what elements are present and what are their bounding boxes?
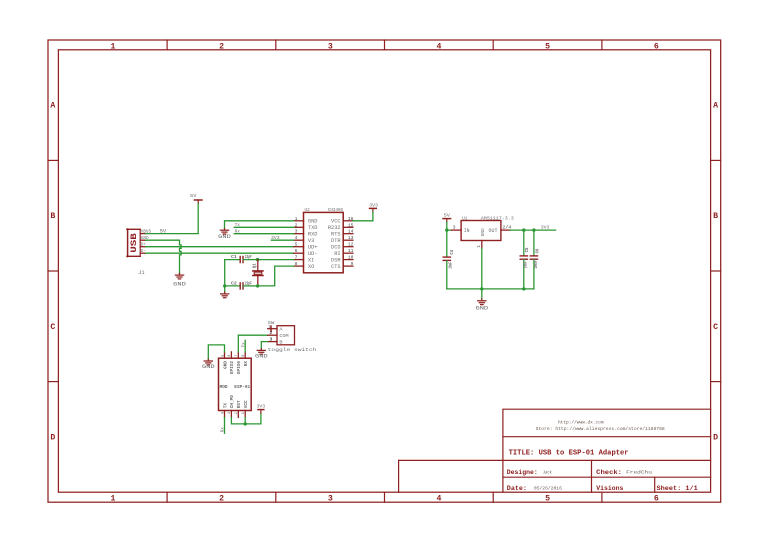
svg-text:http://www.dx.com: http://www.dx.com [558,419,604,425]
junction rail at regulator GND [480,287,483,290]
svg-text:GPIO0: GPIO0 [237,361,242,375]
ground GND (switch) [255,349,268,360]
wire D- [146,252,294,254]
svg-text:GND: GND [173,282,186,288]
svg-text:4: 4 [436,42,441,51]
svg-text:Date:: Date: [507,485,527,492]
wire crystal left leg [224,260,226,286]
svg-text:GPIO2: GPIO2 [230,361,235,375]
svg-text:D: D [50,434,55,443]
svg-text:7: 7 [234,355,238,357]
svg-text:TITLE: USB to ESP-01 Adapter: TITLE: USB to ESP-01 Adapter [509,450,629,458]
wire CH_PD/VCC to 3V3 [231,413,261,424]
svg-text:USB: USB [129,233,139,253]
svg-text:C5: C5 [525,247,530,252]
wire switch B to ground [261,342,267,349]
capacitor C2 22pF [225,281,258,289]
svg-text:5: 5 [545,42,550,51]
svg-text:B: B [713,212,718,221]
svg-text:3V3: 3V3 [541,225,550,231]
net label Rx (ESP TX) [221,427,226,432]
net label 5V [160,228,167,234]
svg-text:12: 12 [348,242,354,248]
svg-text:C: C [50,323,55,332]
module MOD1 ESP-01 [219,352,252,418]
net label 3V3 (output) [541,225,550,231]
svg-text:7: 7 [295,255,298,261]
svg-text:U1: U1 [462,216,467,222]
svg-text:2: 2 [295,222,298,228]
svg-text:Sheet: 1/1: Sheet: 1/1 [657,485,698,492]
svg-text:Rx: Rx [235,229,241,235]
svg-text:GND: GND [308,219,318,225]
svg-text:10uF: 10uF [448,262,453,269]
svg-text:10uF: 10uF [523,261,528,268]
svg-text:RTS: RTS [331,231,341,237]
svg-text:1: 1 [110,42,115,51]
junction C6 top [532,228,535,231]
junction C5 top [522,228,525,231]
ground GND (ESP) [202,359,215,370]
junction XO node [256,284,259,287]
svg-text:8: 8 [295,261,298,267]
svg-text:5V: 5V [160,228,167,234]
svg-text:VCC: VCC [244,400,249,408]
ground GND (crystal) [221,292,229,298]
svg-text:3V3: 3V3 [369,202,378,208]
junction rail at C5 [522,287,525,290]
junction regulator input [445,228,448,231]
label toggle switch [268,347,317,353]
wire XO [258,266,294,286]
svg-text:1: 1 [110,495,115,504]
svg-text:RST: RST [237,400,242,408]
svg-text:1: 1 [241,412,245,414]
svg-text:1: 1 [268,326,270,330]
svg-text:C1: C1 [231,255,237,260]
svg-text:Visions: Visions [596,485,623,492]
svg-text:GND: GND [476,305,489,311]
svg-text:J1: J1 [138,270,145,276]
switch SW toggle [268,320,295,345]
svg-text:6: 6 [227,355,231,357]
wire ESP TX stub [224,417,226,433]
svg-text:C2: C2 [231,281,237,286]
svg-text:4: 4 [436,495,441,504]
svg-text:Q1: Q1 [252,263,257,268]
svg-text:TX: TX [223,403,228,409]
svg-text:XO: XO [308,264,314,270]
svg-text:C: C [713,323,718,332]
svg-text:3: 3 [295,229,298,235]
supply 5V (regulator) [443,212,451,222]
wire IC pin1 GND [225,221,294,229]
svg-text:13: 13 [348,235,354,241]
svg-text:GND: GND [202,364,215,370]
svg-text:D: D [713,434,718,443]
capacitor C1 22pF [225,255,258,263]
supply 5V (USB) [190,193,202,204]
svg-text:B: B [279,339,282,345]
regulator U1 AMS1117-3.3 [452,216,515,249]
svg-text:3V3: 3V3 [257,403,266,409]
svg-text:15: 15 [348,222,354,228]
svg-text:Designe:: Designe: [507,469,538,476]
wire 5V to regulator IN [447,222,452,230]
svg-text:1: 1 [295,216,298,222]
svg-text:GND: GND [223,361,228,369]
svg-text:CH_PD: CH_PD [230,395,235,409]
svg-text:GND: GND [255,354,268,360]
svg-text:GND: GND [482,228,486,237]
svg-text:2: 2 [219,495,224,504]
svg-text:FredChu: FredChu [626,469,652,475]
svg-text:9: 9 [351,261,354,267]
svg-text:UD+: UD+ [308,244,318,250]
svg-text:5: 5 [545,495,550,504]
svg-text:6: 6 [654,495,659,504]
svg-text:3: 3 [328,42,333,51]
junction XI node [256,258,259,261]
svg-text:11: 11 [348,248,354,254]
svg-text:3: 3 [270,336,273,342]
svg-text:TXD: TXD [308,225,318,231]
svg-text:5: 5 [295,242,298,248]
svg-text:05/26/2016: 05/26/2016 [534,486,562,492]
svg-text:3: 3 [453,225,456,231]
svg-text:ESP-01: ESP-01 [234,385,250,390]
wire VCC [353,212,373,221]
supply at switch pin 1 [270,326,272,331]
wire to crystal ground [224,286,226,292]
svg-text:OUT: OUT [489,228,498,234]
svg-text:8: 8 [241,355,245,357]
wire rail to ground [481,289,483,299]
svg-text:C6: C6 [535,248,540,253]
wire ESP GND [208,345,224,359]
wire 3V3 output [510,229,555,231]
connector J1 USB [127,229,151,277]
wire ESP RX stub [244,340,246,352]
wire regulator GND [481,248,483,289]
wire RXD [234,233,293,235]
svg-text:IN: IN [464,228,470,234]
junction VCC node [244,422,247,425]
svg-text:DTR: DTR [331,238,341,244]
svg-text:Tx: Tx [241,342,246,347]
net label Tx (ESP RX) [241,342,246,347]
crystal Q1 [252,260,263,286]
svg-text:A: A [50,102,55,111]
supply 3V3 (IC VCC) [369,202,378,212]
svg-text:5V: 5V [190,193,196,199]
ground GND (USB) [173,273,186,287]
wire TXD [234,226,293,228]
wire ground rail (regulator) [447,288,534,290]
svg-text:R232: R232 [328,225,341,231]
svg-text:Store: http://www.aliexpress.c: Store: http://www.aliexpress.com/store/1… [536,426,665,432]
svg-text:B: B [50,212,55,221]
svg-text:3: 3 [227,412,231,414]
svg-text:DSR: DSR [331,257,341,263]
wire XI [258,259,294,261]
title block [399,409,711,492]
svg-text:1: 1 [477,245,482,248]
svg-text:Rx: Rx [221,427,226,432]
svg-text:Tx: Tx [235,222,241,228]
svg-text:DCD: DCD [331,244,341,250]
svg-text:100nF: 100nF [534,260,539,268]
wire V3 [271,239,293,241]
svg-text:RX: RX [244,361,249,367]
ground GND (regulator) [476,299,489,311]
net label Tx [235,222,241,228]
svg-text:22pF: 22pF [245,281,252,286]
svg-text:3: 3 [328,495,333,504]
svg-text:CH340G: CH340G [328,207,344,213]
wire D+ [146,246,294,248]
svg-text:VCC: VCC [331,219,341,225]
svg-text:COM: COM [279,333,288,339]
svg-text:5: 5 [220,355,224,357]
wire GPIO0 to switch COM [238,335,267,352]
svg-text:XI: XI [308,257,314,263]
svg-text:2: 2 [219,42,224,51]
svg-text:V3: V3 [308,238,314,244]
svg-text:GND: GND [218,234,231,240]
svg-text:14: 14 [348,229,354,235]
svg-text:RXD: RXD [308,231,318,237]
svg-text:A: A [279,327,282,333]
svg-text:UD-: UD- [308,251,318,257]
svg-text:toggle switch: toggle switch [268,347,317,353]
svg-text:22pF: 22pF [245,255,252,260]
supply 3V3 (ESP) [257,403,266,413]
svg-text:A: A [713,102,718,111]
wire VBUS to 5V [146,204,199,234]
svg-text:2: 2 [234,412,238,414]
svg-text:CTS: CTS [331,264,341,270]
svg-text:RI: RI [334,251,340,257]
svg-text:6: 6 [654,42,659,51]
wire USB GND [146,240,182,273]
ground GND (IC pin1) [218,228,231,239]
svg-text:Jack: Jack [543,469,552,475]
capacitor C4 10uF [443,230,455,289]
svg-text:Check:: Check: [596,469,622,476]
svg-text:4: 4 [295,235,298,241]
net label Rx [235,229,241,235]
IC U2 CH340G [294,207,354,273]
capacitor C5 10uF [520,230,530,289]
capacitor C6 100nF [530,230,540,289]
net label 3V3 (V3 pin) [271,235,280,241]
svg-text:AMS1117-3.3: AMS1117-3.3 [481,216,514,222]
svg-text:SW: SW [268,320,275,326]
svg-text:10: 10 [348,255,354,261]
svg-text:6: 6 [295,248,298,254]
junction crystal gnd [223,284,226,287]
svg-text:4: 4 [220,412,224,414]
svg-text:3V3: 3V3 [271,235,280,241]
svg-text:MOD: MOD [220,386,229,390]
svg-text:5V: 5V [444,212,450,218]
svg-text:U2: U2 [305,207,310,213]
svg-text:C4: C4 [450,249,455,254]
